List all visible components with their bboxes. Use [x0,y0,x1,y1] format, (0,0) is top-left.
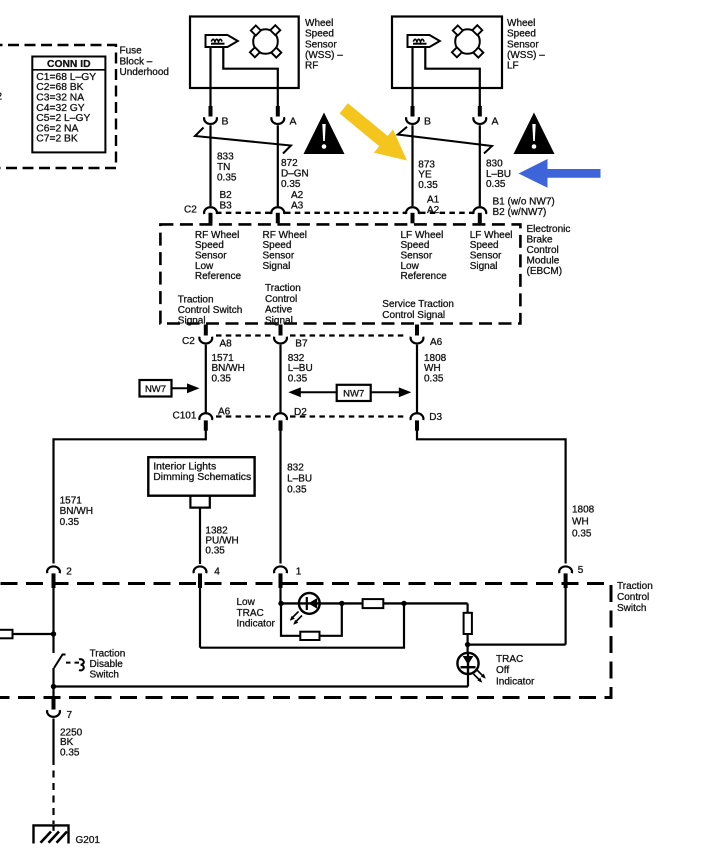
svg-text:L–BU: L–BU [287,473,312,484]
wire 872 D-GN [277,125,279,206]
wire 2250 BK solid [52,719,54,759]
svg-text:A: A [290,115,297,127]
wire 1571 lower run [54,431,206,564]
LF sensor pickup symbol [408,35,440,47]
wire LF B inside box [411,47,413,106]
svg-text:Speed: Speed [305,29,334,40]
twisted pair marker RF [195,128,291,154]
C101 connector line [216,415,271,417]
connector 4 cup and pin [194,566,207,573]
parallel branch with resistor [281,603,300,635]
EBCM top connector 4 cup and pin [473,207,486,214]
svg-text:5: 5 [578,565,584,576]
svg-text:832: 832 [288,353,305,364]
svg-text:B: B [222,115,229,127]
wheel speed sensor RF box [190,17,299,89]
EBCM connector line C2 top [216,212,271,214]
wire down to resistor vertical [467,603,469,612]
svg-text:D–GN: D–GN [281,169,309,180]
svg-text:A3: A3 [291,200,304,211]
svg-text:Switch: Switch [90,670,119,681]
wire 832 lower run [279,431,281,564]
NW7 left arrow [172,387,189,389]
resistor parallel [300,632,319,640]
svg-text:B7: B7 [295,338,308,349]
svg-text:A: A [492,115,499,127]
svg-text:Module: Module [527,256,560,267]
EBCM dashed box [160,224,520,323]
svg-text:873: 873 [418,159,435,170]
svg-text:NW7: NW7 [343,389,364,400]
wire LED to node B and resistor [320,602,363,604]
svg-text:2: 2 [0,92,3,103]
wire 1571 BN/WH upper [205,345,207,413]
svg-text:1571: 1571 [212,353,235,364]
svg-text:B2 (w/NW7): B2 (w/NW7) [493,207,547,218]
svg-text:Signal: Signal [263,261,291,272]
wire RF A jog inside box [223,47,277,106]
svg-text:Active: Active [265,305,293,316]
wire 1808 lower run [417,431,566,564]
yellow arrow [334,97,416,172]
resistor series [363,599,384,608]
svg-text:C101: C101 [173,411,197,422]
wire LF A jog inside box [425,47,480,106]
svg-text:A2: A2 [291,190,304,201]
wire node A to LED [281,602,299,604]
svg-text:Wheel: Wheel [507,18,535,29]
connector 5 cup and pin [559,566,572,573]
svg-text:833: 833 [217,152,234,163]
low TRAC light arrows [292,612,303,623]
svg-text:Control: Control [527,245,559,256]
svg-text:C2: C2 [182,336,195,347]
svg-text:Underhood: Underhood [120,67,169,78]
svg-text:Off: Off [496,665,509,676]
svg-text:A1: A1 [427,195,440,206]
svg-text:Control Signal: Control Signal [382,310,445,321]
CONN ID table box [32,57,105,153]
svg-text:Sensor: Sensor [507,39,539,50]
wire pin5 down [564,588,566,645]
svg-text:Traction: Traction [265,283,301,294]
TRAC off indicator LED [457,653,478,674]
wire 2250 BK dashed [52,758,54,824]
node C dot [401,601,406,606]
svg-text:0.35: 0.35 [288,374,308,385]
svg-text:Reference: Reference [401,271,448,282]
svg-text:1571: 1571 [60,496,83,507]
TRAC off light arrows [474,670,485,681]
EBCM top connector 3 cup and pin [406,207,419,214]
C101 connector 2 cup and pin [274,413,287,420]
svg-text:Service Traction: Service Traction [382,299,454,310]
svg-text:L–BU: L–BU [288,363,313,374]
EBCM bottom pin 1 and cup [204,325,208,336]
svg-text:0.35: 0.35 [205,546,225,557]
wire 830 L-BU [479,125,481,206]
svg-text:B3: B3 [220,200,233,211]
svg-text:WH: WH [572,516,589,527]
wire 1382 PU/WH [199,508,201,564]
wire 873 YE [411,125,413,206]
wheel speed sensor LF box [392,17,502,89]
warning triangle LF [514,113,555,155]
wire 1808 WH upper [416,345,418,413]
twisted pair marker LF [398,127,492,154]
svg-text:A6: A6 [430,337,443,348]
connector 7 pin and cup [52,698,56,710]
EBCM top connector 2 cup and pin [271,207,284,214]
blue arrow [519,159,601,188]
fuse block underhood dashed box [0,45,116,168]
svg-text:Sensor: Sensor [305,39,337,50]
resistor vertical [464,613,472,634]
svg-text:4: 4 [214,567,220,578]
svg-text:CONN ID: CONN ID [47,59,90,70]
wire 832 L-BU upper [279,345,281,413]
svg-text:C7=2 BK: C7=2 BK [36,134,78,145]
svg-text:LF: LF [507,61,519,72]
ground G201 symbol [34,825,69,843]
svg-text:0.35: 0.35 [418,180,438,191]
svg-text:1808: 1808 [424,353,447,364]
svg-text:B: B [424,115,431,127]
wire node C down and return to pin 4 [200,603,404,647]
svg-text:G201: G201 [76,835,101,846]
interior lights bracket [190,496,209,508]
wire LED down to return [467,673,469,687]
switch spring symbol [79,659,84,670]
svg-text:0.35: 0.35 [212,374,232,385]
node D dot [465,642,470,647]
svg-text:TRAC: TRAC [496,654,523,665]
wire resistor to node D [467,634,469,653]
NW7 middle arrow left [300,391,337,393]
NW7 middle arrow right [371,391,400,393]
svg-text:(WSS) –: (WSS) – [507,50,545,61]
svg-text:Low: Low [237,597,256,608]
junction dot switch out [51,684,56,689]
svg-text:Electronic: Electronic [527,224,571,235]
svg-text:0.35: 0.35 [60,517,80,528]
svg-text:Control Switch: Control Switch [178,305,242,316]
svg-text:1808: 1808 [572,504,595,515]
svg-text:NW7: NW7 [145,384,166,395]
RF sensor pickup symbol [206,35,238,47]
svg-text:1: 1 [296,567,302,578]
connector RF pin A [276,106,280,117]
svg-text:D3: D3 [429,412,442,423]
C101 connector 3 cup and pin [411,413,424,420]
LF tone ring [455,29,480,54]
svg-text:BN/WH: BN/WH [212,363,245,374]
svg-text:2: 2 [66,567,72,578]
svg-text:830: 830 [486,158,503,169]
svg-text:D2: D2 [294,407,307,418]
svg-text:Traction: Traction [178,294,214,305]
wire pin2 down to switch [52,588,54,653]
svg-text:872: 872 [281,158,298,169]
svg-text:Switch: Switch [617,603,646,614]
svg-text:0.35: 0.35 [60,747,80,758]
svg-text:Reference: Reference [195,271,242,282]
switch linkage dashes [66,662,79,664]
svg-text:Dimming Schematics: Dimming Schematics [153,472,251,483]
svg-text:Brake: Brake [527,235,554,246]
EBCM bottom pin 2 and cup [279,325,283,336]
connector 2 cup and pin [47,566,60,573]
svg-text:WH: WH [424,363,441,374]
wire RF B inside box [209,47,211,106]
svg-text:Speed: Speed [507,29,536,40]
svg-text:0.35: 0.35 [281,179,301,190]
node A dot [278,601,283,606]
junction dot stub [51,631,56,636]
low TRAC indicator LED [299,593,320,614]
svg-text:L–BU: L–BU [486,169,511,180]
svg-text:0.35: 0.35 [287,484,307,495]
wire switch to junction [52,668,54,697]
svg-text:B1 (w/o NW7): B1 (w/o NW7) [493,196,555,207]
stub connector at left edge [0,630,13,639]
wire junction to TRAC off indicator [54,685,469,687]
traction control switch dashed box [0,584,611,698]
wire stub to junction [13,633,54,635]
svg-text:Control: Control [617,592,649,603]
svg-text:Signal: Signal [178,316,206,327]
svg-text:(EBCM): (EBCM) [527,266,563,277]
svg-text:7: 7 [67,710,73,721]
svg-text:(WSS) –: (WSS) – [305,50,343,61]
svg-text:Traction: Traction [90,648,126,659]
traction disable switch blade [54,655,66,669]
svg-text:Traction: Traction [617,581,653,592]
svg-text:B2: B2 [220,190,233,201]
NW7 callout box left [140,380,172,397]
svg-text:A2: A2 [427,205,440,216]
NW7 callout box middle [337,385,371,401]
svg-text:0.35: 0.35 [486,179,506,190]
connector LF pin A [478,106,482,117]
svg-text:RF: RF [305,61,318,72]
svg-text:Block –: Block – [120,56,153,67]
warning triangle RF [304,113,345,155]
connector LF pin B [411,106,415,117]
svg-text:Disable: Disable [90,659,124,670]
svg-text:Wheel: Wheel [305,18,333,29]
svg-text:0.35: 0.35 [424,374,444,385]
svg-text:TRAC: TRAC [237,608,264,619]
C101 connector 1 cup and pin [199,413,212,420]
connector RF pin B [209,106,213,117]
wire 833 TN [209,125,211,206]
svg-text:YE: YE [418,170,432,181]
connector 1 cup and pin [274,566,287,573]
wire pin4 down [199,588,201,648]
svg-text:TN: TN [217,162,230,173]
svg-text:Indicator: Indicator [496,676,535,687]
svg-text:A6: A6 [218,406,231,417]
svg-text:A8: A8 [220,339,233,350]
svg-text:832: 832 [287,462,304,473]
wire node D to pin 5 [468,643,566,645]
svg-text:0.35: 0.35 [217,173,237,184]
EBCM connector line C2 bottom [216,334,271,336]
wire resistor to node C [383,602,467,604]
svg-text:Indicator: Indicator [237,619,276,630]
svg-text:Control: Control [265,294,297,305]
svg-text:BN/WH: BN/WH [60,506,93,517]
RF tone ring [253,29,278,54]
EBCM bottom pin 3 and cup [415,325,419,336]
wire pin1 down [279,588,281,604]
EBCM top connector 1 cup and pin [204,207,217,214]
interior lights dimming box [148,457,254,496]
svg-text:C2: C2 [184,204,197,215]
node B dot [339,601,344,606]
svg-text:Fuse: Fuse [120,46,143,57]
svg-text:0.35: 0.35 [572,528,592,539]
svg-text:Signal: Signal [470,261,498,272]
